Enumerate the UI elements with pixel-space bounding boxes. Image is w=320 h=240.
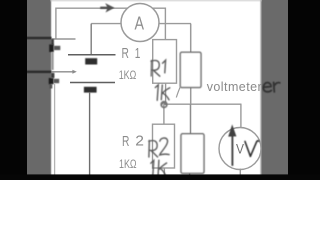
svg-text:voltmeter: voltmeter [207, 80, 262, 94]
wire to sketched R2 vertical [190, 104, 192, 134]
resistor R1 printed box [153, 40, 177, 84]
wire ammeter right [157, 23, 191, 25]
battery B1 long plate 2 dark segment [27, 71, 52, 73]
svg-text:2: 2 [135, 133, 144, 150]
battery B1 dashed link [54, 53, 56, 70]
battery B1 dashed link smear [51, 52, 53, 70]
ammeter U1 circle [121, 4, 159, 42]
battery B1 short plate 2 dark part [49, 78, 54, 84]
handwritten label R1 [151, 60, 166, 76]
sketched box R1 pen tail [176, 87, 180, 98]
wire junction to R2 [163, 104, 165, 125]
svg-text:R: R [122, 133, 130, 150]
battery B2 dashed link [90, 65, 92, 80]
wire stub below voltmeter [239, 169, 241, 176]
wire below battery B1 [54, 84, 56, 176]
top edge artifact line [50, 0, 262, 1]
right black pillar [288, 0, 320, 180]
battery B1 extension arrowhead [72, 70, 76, 74]
battery B1 plate link smudge 2 [51, 73, 55, 78]
svg-text:A: A [135, 13, 145, 33]
battery B1 long plate 1 dark segment [27, 37, 52, 39]
wire jog vertical right of ammeter [164, 8, 166, 41]
current arrow on top wire [100, 5, 113, 12]
resistor R2 sketched box [181, 134, 204, 174]
background canvas [0, 0, 320, 180]
wire right branch vertical [190, 24, 192, 105]
battery B1 below plate smudge [49, 84, 52, 88]
wire left vertical from top corner to battery [55, 8, 57, 39]
battery B1 long plate 1 light extension [52, 38, 76, 39]
svg-text:1: 1 [135, 45, 141, 62]
left black pillar [0, 0, 27, 180]
wire top horizontal [56, 7, 165, 9]
wire below battery B2 [89, 92, 91, 176]
wire stub below sketched R2 [189, 173, 191, 177]
wire stub below R2 box [163, 168, 165, 176]
battery B1 short plate 1 dark part [49, 44, 54, 52]
wire ammeter left to battery branch [91, 23, 126, 25]
battery B2 short plate 1 [85, 58, 97, 64]
svg-text:V: V [236, 140, 245, 156]
wire middle horizontal to voltmeter branch [164, 103, 242, 105]
current arrow at voltmeter [228, 124, 236, 165]
resistor R1 sketched box [180, 52, 201, 87]
junction node dot [161, 102, 167, 108]
handwritten label 1k (R1) [155, 85, 170, 101]
wire below R1 box [165, 83, 167, 104]
battery B1 plate link smudge 1 [51, 39, 54, 45]
svg-text:1KΩ: 1KΩ [119, 70, 137, 82]
handwritten label V (voltmeter) [245, 141, 259, 157]
right gray side strip [260, 0, 289, 180]
battery B1 short plate 1 gray part [54, 46, 61, 50]
label voltmeter traced er over gray strip [263, 82, 279, 91]
handwritten label 1k (R2) [151, 160, 167, 176]
wire battery branch vertical [90, 24, 92, 55]
battery B2 long plate 1 [68, 54, 116, 56]
svg-text:R: R [122, 45, 130, 62]
svg-text:1KΩ: 1KΩ [119, 159, 137, 171]
battery B1 long plate 2 light extension with arrow [52, 71, 74, 73]
handwritten label R2 [149, 138, 169, 157]
battery B2 short plate 2 [84, 87, 97, 93]
left gray side strip [27, 0, 53, 180]
voltmeter V circle [219, 128, 261, 170]
bottom black letterbox bar [0, 174, 320, 180]
battery B1 short plate 2 gray part [54, 79, 60, 83]
battery B2 long plate 2 [70, 82, 115, 84]
wire voltmeter branch vertical [240, 104, 242, 129]
resistor R2 printed box [153, 124, 175, 168]
